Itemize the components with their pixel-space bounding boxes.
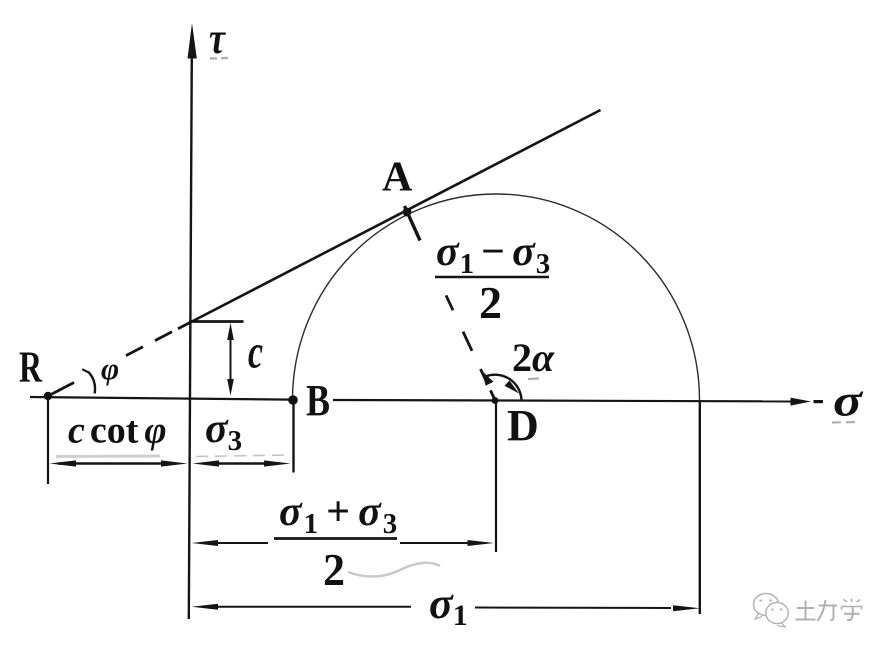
tau axis (vertical): [188, 23, 197, 619]
svg-text:σ1−σ3: σ1−σ3: [436, 229, 551, 280]
watermark logo: [754, 594, 789, 628]
dashed radius A-D: [446, 295, 495, 399]
scan artifact: gray underline below sigma label: [832, 421, 857, 424]
scan artifact: gray smudge above ccotphi dimension: [56, 455, 160, 459]
scan artifact: gray underline below tau label: [210, 57, 228, 60]
ccotphi dimension: [50, 460, 188, 466]
svg-text:τ: τ: [209, 14, 226, 63]
R extension line: [47, 399, 49, 484]
right extension line (sigma1 edge): [699, 401, 701, 614]
svg-text:φ: φ: [101, 351, 119, 386]
svg-text:c: c: [248, 326, 263, 379]
B point: [288, 395, 298, 405]
D extension line: [495, 402, 497, 552]
svg-text:2: 2: [323, 544, 345, 595]
svg-text:B: B: [306, 376, 330, 425]
svg-text:R: R: [19, 343, 43, 392]
dashed extension to R: [48, 323, 190, 397]
svg-text:2: 2: [479, 277, 502, 328]
fraction (s1-s3)/2: [435, 229, 551, 328]
2alpha angle arc: [483, 372, 522, 400]
svg-text:σ1+σ3: σ1+σ3: [279, 489, 399, 540]
point A: [403, 208, 412, 217]
c dimension (vertical double arrow): [227, 323, 234, 396]
phi angle arc: [88, 372, 95, 394]
cohesion intercept horizontal line: [190, 320, 244, 323]
svg-text:D: D: [507, 401, 539, 450]
scan artifact: gray underline below 2alpha label: [528, 377, 539, 380]
R point: [44, 392, 52, 400]
sigma3 dimension: [193, 460, 291, 466]
fraction (s1+s3)/2: [274, 489, 440, 595]
li: [819, 605, 838, 607]
watermark text: tu li xue: [796, 599, 862, 622]
svg-text:2α: 2α: [512, 335, 555, 380]
svg-text:A: A: [382, 155, 413, 201]
radius tick at A: [405, 206, 421, 241]
xue: [844, 600, 848, 603]
D point: [492, 397, 499, 404]
scan artifact: gray dashes above sigma3 dimension: [196, 455, 288, 457]
failure envelope line (solid part through A): [190, 110, 601, 323]
sigma axis (horizontal): [30, 397, 823, 406]
scan artifact: gray wavy stroke right of denominator: [348, 563, 440, 577]
mohr circle (upper semicircle): [293, 194, 700, 400]
B extension line: [292, 402, 294, 473]
svg-text:σ: σ: [833, 375, 863, 426]
dim (s1+s3)/2: [192, 540, 495, 546]
tu: [797, 607, 814, 609]
svg-text:ccotφ: ccotφ: [68, 410, 167, 452]
dim sigma1: [192, 604, 701, 612]
